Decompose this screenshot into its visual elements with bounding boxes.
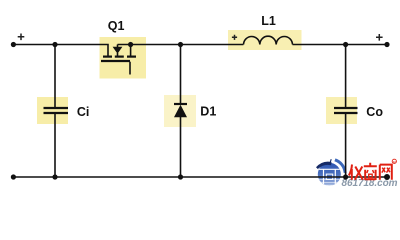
svg-text:R: R [393,159,396,164]
svg-text:Ci: Ci [77,105,90,119]
svg-text:Q1: Q1 [108,19,125,33]
svg-text:L1: L1 [261,14,276,28]
svg-text:Co: Co [366,105,383,119]
svg-text:D1: D1 [200,105,216,119]
